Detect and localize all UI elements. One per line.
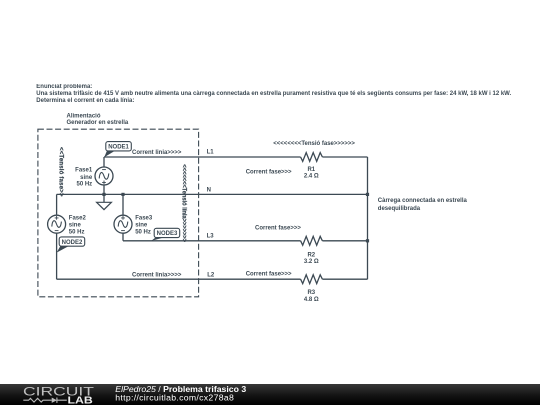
svg-text:Generador en estrella: Generador en estrella xyxy=(67,120,129,126)
svg-text:50 Hz: 50 Hz xyxy=(77,182,93,188)
svg-text:Fase2: Fase2 xyxy=(69,215,87,221)
svg-text:Fase3: Fase3 xyxy=(135,215,153,221)
svg-text:50 Hz: 50 Hz xyxy=(69,229,85,235)
svg-text:Corrent linia>>>>: Corrent linia>>>> xyxy=(132,273,182,279)
svg-text:Alimentació: Alimentació xyxy=(67,113,101,119)
svg-text:Una sistema trifàsic de 415 V: Una sistema trifàsic de 415 V amb neutre… xyxy=(36,91,511,97)
svg-text:Càrrega connectada en estrella: Càrrega connectada en estrella xyxy=(378,198,468,204)
svg-text:<<Tensió fase>>: <<Tensió fase>> xyxy=(57,147,63,197)
svg-text:R1: R1 xyxy=(307,167,315,173)
svg-text:Corrent fase>>>: Corrent fase>>> xyxy=(255,226,301,232)
svg-text:desequilibrada: desequilibrada xyxy=(378,206,421,212)
svg-text:3.2 Ω: 3.2 Ω xyxy=(304,259,319,265)
svg-text:Corrent fase>>>: Corrent fase>>> xyxy=(246,169,292,175)
svg-text:NODE3: NODE3 xyxy=(157,231,178,237)
svg-text:<<<<<<<Tensió línia>>>>>>>: <<<<<<<Tensió línia>>>>>>> xyxy=(180,164,186,242)
svg-text:L3: L3 xyxy=(207,234,215,240)
svg-text:LAB: LAB xyxy=(68,396,93,405)
svg-text:http://circuitlab.com/cx278a8: http://circuitlab.com/cx278a8 xyxy=(115,392,234,402)
svg-text:sine: sine xyxy=(69,223,82,229)
svg-text:R2: R2 xyxy=(307,253,315,259)
svg-text:L2: L2 xyxy=(207,273,215,279)
svg-text:NODE2: NODE2 xyxy=(62,240,83,246)
svg-text:sine: sine xyxy=(135,223,148,229)
svg-text:<<<<<<<<Tensió fase>>>>>>: <<<<<<<<Tensió fase>>>>>> xyxy=(273,141,355,147)
svg-text:L1: L1 xyxy=(207,149,215,155)
svg-text:Determina el corrent en cada l: Determina el corrent en cada línia: xyxy=(36,98,134,104)
svg-text:4.8 Ω: 4.8 Ω xyxy=(304,297,319,303)
svg-text:sine: sine xyxy=(80,175,93,181)
svg-text:50 Hz: 50 Hz xyxy=(135,229,151,235)
svg-text:NODE1: NODE1 xyxy=(108,145,129,151)
svg-text:Corrent linia>>>>: Corrent linia>>>> xyxy=(132,150,182,156)
svg-text:Enunciat problema:: Enunciat problema: xyxy=(36,84,92,90)
svg-text:R3: R3 xyxy=(307,290,315,296)
svg-text:Fase1: Fase1 xyxy=(75,168,93,174)
svg-text:2.4 Ω: 2.4 Ω xyxy=(304,174,319,180)
svg-text:N: N xyxy=(207,187,211,193)
svg-text:Corrent fase>>>: Corrent fase>>> xyxy=(246,271,292,277)
